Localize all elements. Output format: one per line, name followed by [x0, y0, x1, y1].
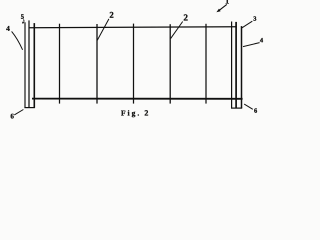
svg-text:2: 2: [144, 109, 148, 118]
leader to label 2 left: [97, 19, 109, 40]
right end post line A: [231, 22, 233, 109]
leader arrow for label 1: [219, 4, 227, 10]
svg-text:Fig.: Fig.: [121, 108, 141, 117]
svg-text:5: 5: [21, 14, 25, 21]
svg-text:3: 3: [253, 16, 256, 23]
svg-text:4: 4: [6, 24, 10, 33]
post P2: [96, 24, 98, 104]
leader to label 2 right: [171, 22, 183, 39]
svg-text:2: 2: [183, 13, 188, 23]
svg-text:2: 2: [109, 10, 114, 20]
leader to label 4 right: [243, 43, 260, 47]
post P1: [59, 24, 61, 104]
leader to label 4 left: [12, 31, 23, 49]
top rail: [29, 26, 237, 29]
leader arrow for label 5: [22, 19, 25, 22]
left end post line B: [28, 20, 30, 107]
right end post bottom cap: [231, 107, 242, 109]
right end post line C: [241, 26, 243, 108]
left end post line C: [33, 23, 35, 108]
leader to label 6 left: [14, 110, 23, 115]
svg-text:4: 4: [260, 37, 264, 44]
svg-text:6: 6: [254, 108, 258, 115]
bottom rail: [32, 98, 243, 100]
arrowhead of label 1 leader: [216, 9, 220, 13]
left end post line A: [24, 22, 26, 107]
leader to label 6 right: [244, 104, 253, 109]
post P4: [169, 24, 171, 103]
left end post bottom cap: [24, 107, 35, 109]
post P3: [133, 24, 135, 104]
right end post line B: [235, 22, 237, 108]
arrowhead of label 5 leader: [22, 22, 25, 24]
leader to label 3: [242, 21, 253, 28]
svg-text:6: 6: [10, 112, 14, 120]
post P5: [205, 24, 207, 104]
svg-text:1: 1: [225, 0, 229, 6]
